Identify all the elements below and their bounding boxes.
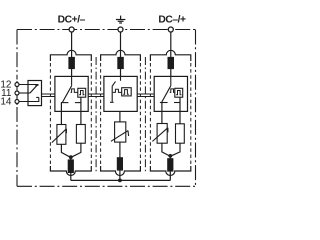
U1 contact right [75, 102, 81, 104]
enclosure left boundary [16, 30, 18, 187]
U3 pulse glyph [176, 91, 181, 95]
U2 trigger link [113, 89, 122, 92]
wire fuse F2 to switch box [120, 69, 122, 78]
varistor MOV3 [152, 124, 168, 144]
wire F1b to bus [70, 157, 72, 180]
node module 3 [168, 154, 172, 158]
node module 2 on bus [118, 179, 122, 183]
wire terminal 12 [19, 84, 37, 86]
bus wire (common point) [71, 179, 171, 181]
U1 switch blade [63, 86, 72, 102]
separator module 2/3 (dashed) [144, 57, 146, 172]
svg-text:14: 14 [0, 97, 12, 108]
module 3 box top edge with wire hop [150, 50, 190, 61]
switch box U2 (module 2 SCI disconnector) [104, 76, 137, 111]
U1 lead [71, 76, 73, 85]
enclosure top boundary (dash-dot) [17, 29, 196, 31]
svg-text:DC–/+: DC–/+ [158, 15, 186, 26]
wire R3 down to node [172, 143, 180, 155]
wire F3b to bus [169, 156, 171, 181]
terminal 14 [15, 100, 19, 104]
U2 pulse glyph [123, 90, 129, 95]
wire F2b to bus [119, 170, 121, 180]
wire R1 down to node [72, 143, 81, 157]
U2 contact [110, 101, 114, 103]
terminal 11 [15, 91, 19, 95]
module 1 box left edge (dashed) [49, 63, 51, 164]
wire terminal 11 [19, 92, 30, 94]
module 2 box top edge with wire hop [101, 50, 141, 61]
enclosure bottom boundary [17, 185, 196, 187]
wire U3 to varistor MOV3 [161, 103, 163, 124]
element R3 (module 3 right branch) [176, 124, 185, 143]
U3 contact left [160, 102, 168, 104]
wire MOV3 down to node [162, 143, 169, 155]
terminal earth [118, 27, 123, 32]
module 1 box top edge with wire hop [50, 50, 91, 61]
varistor MOV2 [111, 122, 129, 142]
varistor MOV1 [52, 125, 67, 145]
svg-text:DC+/–: DC+/– [58, 15, 86, 26]
U3 trigger link [170, 89, 175, 93]
U2 monitoring box [122, 88, 132, 96]
mechanical link module 1 to module 2 [88, 94, 104, 97]
fuse F2 (module 2 top) [118, 58, 123, 69]
module 3 box right edge (dashed) [190, 63, 192, 164]
switch box U3 (module 3 SCI disconnector) [154, 76, 187, 111]
wire fuse F1 to switch box [71, 69, 73, 78]
module 3 box left edge (dashed) [149, 63, 151, 164]
wire MOV1 down to node [61, 144, 69, 157]
fuse F1 (thermal disconnector, module 1 top) [69, 58, 74, 69]
wire terminal earth down [120, 32, 122, 57]
U3 lead [170, 76, 172, 85]
ground symbol [116, 16, 126, 23]
wire terminal 14 with contact [19, 97, 39, 101]
U2 switch blade [112, 81, 115, 102]
K1 changeover blade [30, 85, 38, 93]
wire U3 monitoring to R3 [179, 97, 181, 124]
wire U2 to varistor MOV2 [119, 111, 121, 122]
wire terminal DC+/- down [71, 32, 73, 57]
terminal 12 [15, 83, 19, 87]
wire MOV2 to fuse F2b [119, 142, 121, 157]
fuse F3b (module 3 bottom) [168, 159, 173, 171]
module 3 box bottom edge with wire hop [150, 166, 190, 176]
terminal DC+/- [69, 27, 74, 32]
separator module 1/2 (dashed) [95, 57, 97, 172]
fuse F1b (module 1 bottom) [68, 160, 73, 172]
mechanical link contact box to module 1 [42, 94, 55, 97]
K1 blade tip tick [35, 84, 38, 86]
enclosure right boundary [195, 30, 197, 187]
wire U1 monitoring to R1 [80, 97, 82, 124]
U1 monitoring box [78, 88, 86, 97]
module 2 box bottom edge with wire hop [101, 166, 141, 176]
wire terminal DC-/+ down [170, 32, 172, 57]
U3 monitoring box [175, 88, 183, 97]
element R1 (module 1 right branch) [76, 125, 85, 144]
fuse F2b (module 2 bottom) [117, 158, 122, 170]
module 2 box right edge (dashed) [139, 63, 141, 164]
U3 contact right [174, 102, 180, 104]
switch box U1 (module 1 SCI disconnector) [55, 76, 88, 111]
wire fuse F3 to switch box [170, 69, 172, 77]
module 2 box left edge (dashed) [100, 63, 102, 164]
U1 trigger link [71, 89, 78, 93]
module 1 box right edge (dashed) [90, 63, 92, 164]
terminal DC-/+ [168, 27, 173, 32]
module 1 box bottom edge with wire hop [50, 166, 91, 175]
U2 lead [120, 77, 122, 81]
wire U1 to varistor MOV1 [60, 103, 62, 125]
U3 switch blade [162, 86, 171, 102]
U1 contact left [61, 102, 69, 104]
node module 1 [69, 155, 73, 159]
remote signalling contact box K1 [28, 81, 42, 106]
U1 pulse glyph [79, 91, 84, 95]
fuse F3 (module 3 top) [168, 58, 173, 69]
mechanical link module 2 to module 3 [137, 94, 154, 97]
